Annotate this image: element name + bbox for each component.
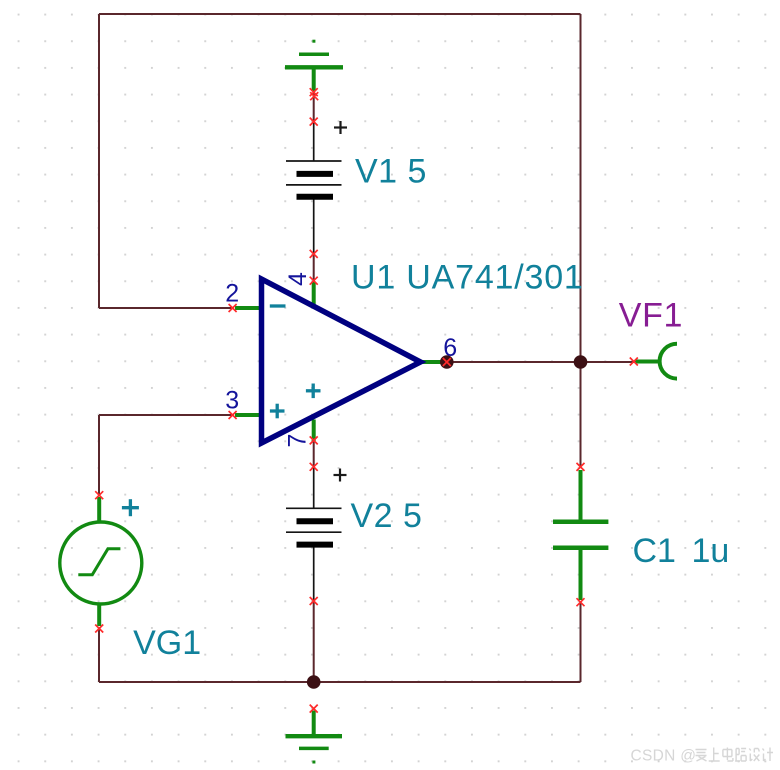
- svg-text:U1 UA741/301: U1 UA741/301: [351, 259, 584, 297]
- svg-text:7: 7: [284, 434, 312, 448]
- svg-text:VF1: VF1: [619, 296, 683, 334]
- svg-text:V2 5: V2 5: [351, 497, 423, 535]
- svg-text:CSDN @: CSDN @: [631, 748, 697, 765]
- svg-text:4: 4: [284, 272, 312, 286]
- svg-text:1u: 1u: [692, 532, 730, 570]
- svg-text:C1: C1: [633, 532, 676, 570]
- svg-text:VG1: VG1: [133, 624, 201, 662]
- svg-text:6: 6: [443, 334, 457, 362]
- svg-text:3: 3: [225, 387, 239, 415]
- svg-text:V1 5: V1 5: [355, 152, 427, 190]
- svg-text:2: 2: [225, 280, 239, 308]
